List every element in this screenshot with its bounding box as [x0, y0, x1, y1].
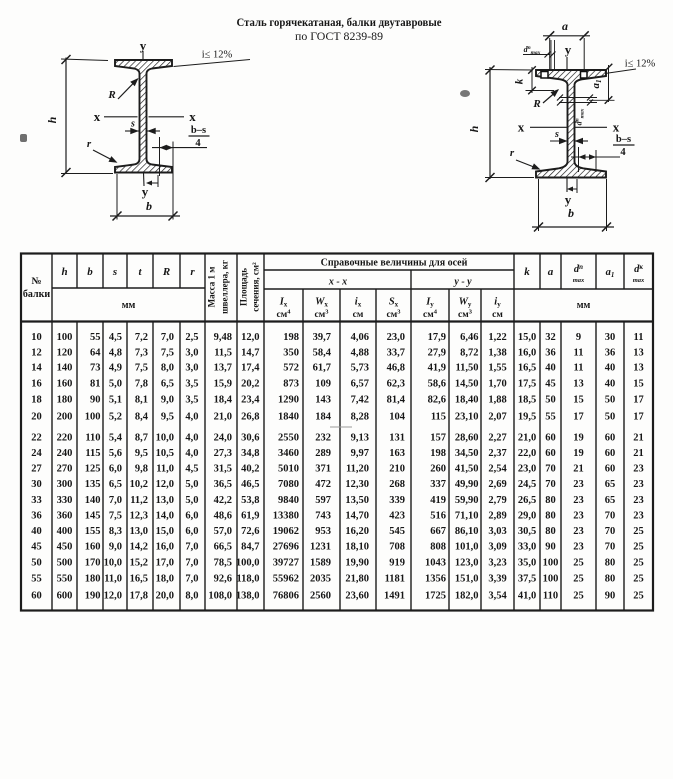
svg-text:13: 13	[573, 379, 584, 390]
svg-text:50: 50	[31, 557, 42, 568]
svg-text:3,0: 3,0	[185, 347, 198, 358]
svg-text:x: x	[613, 120, 620, 135]
svg-text:80: 80	[605, 573, 616, 584]
svg-text:30,5: 30,5	[518, 526, 536, 537]
svg-text:160: 160	[85, 542, 101, 553]
svg-text:260: 260	[430, 464, 446, 475]
svg-text:сечения, см²: сечения, см²	[251, 262, 261, 312]
svg-text:6,0: 6,0	[185, 526, 198, 537]
svg-text:19,90: 19,90	[345, 557, 369, 568]
svg-text:18: 18	[31, 395, 42, 406]
svg-text:39727: 39727	[273, 557, 299, 568]
svg-text:268: 268	[389, 479, 405, 490]
svg-text:80: 80	[545, 526, 556, 537]
svg-text:1,38: 1,38	[488, 347, 506, 358]
svg-text:49,90: 49,90	[455, 479, 479, 490]
svg-text:26,8: 26,8	[241, 411, 259, 422]
svg-text:108,0: 108,0	[208, 590, 232, 601]
svg-text:80: 80	[545, 510, 556, 521]
svg-text:25: 25	[573, 557, 584, 568]
left diagram axis y bottom	[143, 173, 146, 187]
svg-text:339: 339	[389, 495, 405, 506]
svg-text:36: 36	[31, 510, 42, 521]
svg-text:12,0: 12,0	[156, 479, 174, 490]
left (b-s)/4 dimension	[159, 137, 161, 176]
svg-text:919: 919	[389, 557, 405, 568]
svg-text:26,5: 26,5	[518, 495, 536, 506]
right (b-s)/4 dimension	[578, 147, 580, 172]
svg-text:b–s: b–s	[616, 134, 631, 145]
svg-text:50: 50	[545, 395, 556, 406]
svg-text:2560: 2560	[310, 590, 331, 601]
svg-text:h: h	[45, 116, 59, 123]
left bottom small dimension	[157, 175, 159, 187]
svg-text:50: 50	[605, 395, 616, 406]
svg-text:18,40: 18,40	[455, 395, 479, 406]
svg-text:2,89: 2,89	[488, 510, 506, 521]
svg-text:5,6: 5,6	[109, 448, 122, 459]
svg-text:27: 27	[31, 464, 42, 475]
svg-text:23: 23	[573, 495, 584, 506]
svg-text:25: 25	[633, 542, 644, 553]
svg-text:21: 21	[633, 433, 644, 444]
svg-text:36: 36	[605, 347, 616, 358]
svg-text:118,0: 118,0	[236, 573, 259, 584]
svg-text:40,2: 40,2	[241, 464, 259, 475]
svg-text:55962: 55962	[273, 573, 299, 584]
svg-text:21: 21	[633, 448, 644, 459]
svg-text:125: 125	[85, 464, 101, 475]
svg-text:y: y	[142, 184, 149, 199]
svg-text:55: 55	[31, 573, 42, 584]
svg-text:5,1: 5,1	[109, 395, 122, 406]
svg-text:x: x	[189, 109, 196, 124]
svg-text:1,22: 1,22	[488, 332, 506, 343]
svg-text:330: 330	[57, 495, 73, 506]
svg-text:7,0: 7,0	[185, 557, 198, 568]
svg-text:Площадь: Площадь	[239, 268, 249, 306]
svg-text:3,5: 3,5	[185, 379, 198, 390]
svg-text:41,0: 41,0	[518, 590, 536, 601]
svg-text:7,42: 7,42	[351, 395, 369, 406]
svg-text:2,69: 2,69	[488, 479, 506, 490]
header line under h..r	[52, 287, 205, 289]
svg-text:200: 200	[57, 411, 73, 422]
svg-text:22,0: 22,0	[518, 448, 536, 459]
right a1 dimension	[608, 65, 610, 102]
svg-text:11: 11	[634, 332, 644, 343]
svg-text:i≤ 12%: i≤ 12%	[202, 50, 233, 61]
svg-text:82,6: 82,6	[428, 395, 446, 406]
svg-text:953: 953	[315, 526, 331, 537]
vertical lines k..d group	[539, 254, 541, 290]
svg-text:13380: 13380	[273, 510, 299, 521]
svg-text:3460: 3460	[278, 448, 299, 459]
svg-text:8,0: 8,0	[161, 363, 174, 374]
svg-text:17,5: 17,5	[518, 379, 536, 390]
right a dimension	[549, 38, 551, 70]
table vertical lines full height	[51, 254, 53, 611]
svg-text:23,4: 23,4	[241, 395, 260, 406]
svg-text:708: 708	[389, 542, 405, 553]
svg-text:2,27: 2,27	[488, 433, 506, 444]
svg-text:k: k	[514, 78, 526, 84]
svg-text:143: 143	[315, 395, 331, 406]
left slope label i<=12%	[174, 60, 251, 67]
svg-text:a: a	[548, 266, 554, 278]
svg-text:60: 60	[605, 433, 616, 444]
svg-text:170: 170	[85, 557, 101, 568]
svg-text:81: 81	[90, 379, 101, 390]
svg-text:115: 115	[85, 448, 100, 459]
svg-text:545: 545	[389, 526, 405, 537]
svg-text:3,5: 3,5	[185, 395, 198, 406]
svg-text:14,2: 14,2	[130, 542, 148, 553]
svg-text:53,8: 53,8	[241, 495, 259, 506]
svg-text:100: 100	[57, 332, 73, 343]
svg-text:34,8: 34,8	[241, 448, 259, 459]
svg-text:16,5: 16,5	[518, 363, 536, 374]
svg-text:17: 17	[633, 411, 644, 422]
svg-text:27696: 27696	[273, 542, 299, 553]
svg-text:27,3: 27,3	[214, 448, 232, 459]
svg-text:13: 13	[633, 363, 644, 374]
svg-text:84,7: 84,7	[241, 542, 259, 553]
svg-text:25: 25	[633, 526, 644, 537]
svg-text:55: 55	[90, 332, 101, 343]
svg-text:100: 100	[543, 557, 559, 568]
left b dimension	[116, 174, 118, 220]
svg-text:швеллера, кг: швеллера, кг	[220, 260, 230, 314]
svg-text:7,0: 7,0	[185, 542, 198, 553]
svg-text:86,10: 86,10	[455, 526, 479, 537]
svg-text:21,80: 21,80	[345, 573, 369, 584]
svg-text:9,0: 9,0	[109, 542, 122, 553]
svg-text:6,0: 6,0	[185, 510, 198, 521]
svg-text:1725: 1725	[425, 590, 446, 601]
svg-text:45: 45	[31, 542, 42, 553]
svg-text:46,8: 46,8	[387, 363, 405, 374]
svg-text:37,5: 37,5	[518, 573, 536, 584]
svg-text:29,0: 29,0	[518, 510, 536, 521]
svg-text:21,0: 21,0	[214, 411, 232, 422]
right slope label i<=12%	[605, 69, 636, 74]
svg-text:9840: 9840	[278, 495, 299, 506]
svg-text:155: 155	[85, 526, 101, 537]
svg-text:6,57: 6,57	[351, 379, 369, 390]
svg-text:13: 13	[633, 347, 644, 358]
svg-text:18,10: 18,10	[345, 542, 369, 553]
svg-text:4,0: 4,0	[185, 448, 198, 459]
svg-text:7,5: 7,5	[161, 347, 174, 358]
svg-text:7,2: 7,2	[135, 332, 148, 343]
svg-text:220: 220	[57, 433, 73, 444]
svg-text:1,55: 1,55	[488, 363, 506, 374]
svg-text:135: 135	[85, 479, 101, 490]
svg-text:2035: 2035	[310, 573, 331, 584]
svg-text:13,0: 13,0	[130, 526, 148, 537]
svg-text:9,5: 9,5	[161, 411, 174, 422]
svg-text:60: 60	[545, 433, 556, 444]
svg-text:61,7: 61,7	[313, 363, 331, 374]
svg-text:24,5: 24,5	[518, 479, 536, 490]
svg-text:s: s	[112, 266, 117, 278]
svg-text:60: 60	[31, 590, 42, 601]
svg-text:4,0: 4,0	[185, 411, 198, 422]
scan smudge left margin	[20, 134, 27, 142]
svg-text:1589: 1589	[310, 557, 331, 568]
svg-text:16: 16	[31, 379, 42, 390]
svg-text:r: r	[190, 266, 195, 278]
svg-text:360: 360	[57, 510, 73, 521]
header line under x-x / y-y band and k..d cells	[264, 288, 653, 290]
svg-text:10,2: 10,2	[130, 479, 148, 490]
svg-text:600: 600	[57, 590, 73, 601]
svg-text:110: 110	[85, 433, 100, 444]
svg-text:23: 23	[573, 510, 584, 521]
svg-text:12,0: 12,0	[104, 590, 122, 601]
svg-text:808: 808	[430, 542, 446, 553]
svg-text:r: r	[87, 138, 92, 150]
svg-text:Справочные величины для осей: Справочные величины для осей	[321, 258, 468, 269]
svg-text:667: 667	[430, 526, 446, 537]
svg-text:23,0: 23,0	[518, 464, 536, 475]
svg-text:60: 60	[605, 464, 616, 475]
svg-text:7080: 7080	[278, 479, 299, 490]
svg-text:198: 198	[283, 332, 299, 343]
svg-text:8,0: 8,0	[185, 590, 198, 601]
svg-text:17,9: 17,9	[428, 332, 446, 343]
svg-text:25: 25	[633, 573, 644, 584]
svg-text:4: 4	[620, 147, 626, 158]
svg-text:17: 17	[573, 411, 584, 422]
svg-text:109: 109	[315, 379, 331, 390]
svg-text:y: y	[140, 38, 147, 53]
svg-text:55: 55	[545, 411, 556, 422]
svg-text:16,5: 16,5	[130, 573, 148, 584]
svg-text:210: 210	[389, 464, 405, 475]
svg-text:72,6: 72,6	[241, 526, 259, 537]
svg-text:3,09: 3,09	[488, 542, 506, 553]
svg-text:61,9: 61,9	[241, 510, 259, 521]
svg-text:23: 23	[633, 464, 644, 475]
svg-text:110: 110	[543, 590, 558, 601]
svg-text:10,5: 10,5	[156, 448, 174, 459]
svg-text:57,0: 57,0	[214, 526, 232, 537]
header line under reference-values band	[264, 269, 514, 271]
svg-text:см: см	[353, 310, 364, 320]
svg-text:R: R	[532, 98, 540, 110]
svg-text:31,5: 31,5	[214, 464, 232, 475]
right x-x axis	[530, 126, 567, 128]
svg-text:20,2: 20,2	[241, 379, 259, 390]
svg-text:k: k	[524, 266, 530, 278]
svg-text:b: b	[568, 206, 574, 220]
svg-text:36: 36	[545, 347, 556, 358]
table header separator (thick)	[21, 320, 653, 322]
svg-text:2,07: 2,07	[488, 411, 506, 422]
svg-text:9,48: 9,48	[214, 332, 232, 343]
svg-text:70: 70	[545, 464, 556, 475]
svg-text:3,0: 3,0	[185, 363, 198, 374]
svg-text:40: 40	[605, 379, 616, 390]
svg-text:35,0: 35,0	[518, 557, 536, 568]
svg-text:17,0: 17,0	[156, 557, 174, 568]
svg-text:23: 23	[573, 526, 584, 537]
svg-text:66,5: 66,5	[214, 542, 232, 553]
svg-text:270: 270	[57, 464, 73, 475]
svg-text:45: 45	[545, 379, 556, 390]
svg-text:7,0: 7,0	[161, 332, 174, 343]
svg-text:30: 30	[605, 332, 616, 343]
svg-text:190: 190	[85, 590, 101, 601]
svg-text:33,7: 33,7	[387, 347, 405, 358]
left I-beam hatched cross-section	[115, 60, 172, 173]
svg-text:7,3: 7,3	[135, 347, 148, 358]
right I-beam hatched cross-section	[536, 70, 606, 178]
svg-text:s: s	[554, 129, 559, 140]
svg-text:743: 743	[315, 510, 331, 521]
svg-text:16,0: 16,0	[156, 542, 174, 553]
svg-text:18,0: 18,0	[156, 573, 174, 584]
svg-text:14,70: 14,70	[345, 510, 369, 521]
svg-text:572: 572	[283, 363, 299, 374]
svg-text:i≤ 12%: i≤ 12%	[625, 59, 656, 70]
svg-text:9,13: 9,13	[351, 433, 369, 444]
right k dimension	[531, 67, 533, 93]
svg-text:15,2: 15,2	[130, 557, 148, 568]
svg-text:y - y: y - y	[453, 277, 472, 288]
svg-text:337: 337	[430, 479, 446, 490]
right axis y bottom	[566, 178, 568, 193]
svg-text:597: 597	[315, 495, 331, 506]
svg-text:10,0: 10,0	[104, 557, 122, 568]
svg-text:23: 23	[573, 542, 584, 553]
svg-text:25: 25	[573, 590, 584, 601]
svg-text:81,4: 81,4	[387, 395, 406, 406]
svg-text:58,4: 58,4	[313, 347, 332, 358]
svg-text:16,20: 16,20	[345, 526, 369, 537]
svg-text:20: 20	[31, 411, 42, 422]
svg-text:11: 11	[574, 363, 584, 374]
svg-text:b: b	[146, 199, 152, 213]
svg-text:71,10: 71,10	[455, 510, 479, 521]
svg-text:23: 23	[633, 510, 644, 521]
svg-text:8,72: 8,72	[460, 347, 478, 358]
svg-text:30: 30	[31, 479, 42, 490]
svg-text:32: 32	[545, 332, 556, 343]
svg-text:145: 145	[85, 510, 101, 521]
svg-text:4,0: 4,0	[185, 433, 198, 444]
svg-text:182,0: 182,0	[455, 590, 479, 601]
svg-text:15: 15	[573, 395, 584, 406]
faint scan artifact in section gap	[330, 426, 352, 428]
svg-text:23: 23	[573, 479, 584, 490]
svg-text:5,2: 5,2	[109, 411, 122, 422]
svg-text:70: 70	[605, 526, 616, 537]
svg-text:s: s	[130, 119, 135, 130]
svg-text:23,60: 23,60	[345, 590, 369, 601]
svg-text:27,9: 27,9	[428, 347, 446, 358]
svg-text:b: b	[87, 266, 93, 278]
svg-text:11,20: 11,20	[346, 464, 369, 475]
svg-text:42,2: 42,2	[214, 495, 232, 506]
svg-text:21,0: 21,0	[518, 433, 536, 444]
vertical line x-x / y-y divider	[410, 270, 412, 611]
svg-text:14,50: 14,50	[455, 379, 479, 390]
svg-text:8,3: 8,3	[109, 526, 122, 537]
svg-text:№: №	[31, 276, 41, 287]
svg-text:15,0: 15,0	[518, 332, 536, 343]
svg-text:25: 25	[573, 573, 584, 584]
svg-text:max: max	[633, 277, 645, 284]
svg-text:180: 180	[57, 395, 73, 406]
svg-text:500: 500	[57, 557, 73, 568]
svg-text:19,5: 19,5	[518, 411, 536, 422]
svg-text:мм: мм	[577, 300, 591, 311]
svg-text:92,6: 92,6	[214, 573, 232, 584]
right flange rivet hole left	[541, 72, 548, 79]
right axis y top	[566, 57, 568, 70]
svg-text:1290: 1290	[278, 395, 299, 406]
vertical lines unit cells x-x group	[302, 289, 304, 611]
svg-text:100: 100	[543, 573, 559, 584]
svg-text:138,0: 138,0	[236, 590, 260, 601]
svg-text:11,0: 11,0	[104, 573, 122, 584]
svg-text:13,0: 13,0	[156, 495, 174, 506]
svg-text:19062: 19062	[273, 526, 299, 537]
svg-text:12,3: 12,3	[130, 510, 148, 521]
svg-text:5010: 5010	[278, 464, 299, 475]
svg-text:22: 22	[31, 433, 42, 444]
svg-text:101,0: 101,0	[455, 542, 479, 553]
svg-text:873: 873	[283, 379, 299, 390]
svg-text:450: 450	[57, 542, 73, 553]
svg-text:7,0: 7,0	[185, 573, 198, 584]
right b dimension	[538, 179, 540, 231]
svg-text:r: r	[510, 147, 515, 159]
svg-text:40: 40	[545, 363, 556, 374]
svg-text:x - x: x - x	[328, 277, 347, 288]
svg-text:140: 140	[85, 495, 101, 506]
svg-text:12,30: 12,30	[345, 479, 369, 490]
svg-text:4,8: 4,8	[109, 347, 122, 358]
svg-text:1181: 1181	[385, 573, 405, 584]
svg-text:70: 70	[605, 542, 616, 553]
svg-text:160: 160	[57, 379, 73, 390]
svg-text:65: 65	[605, 495, 616, 506]
svg-text:104: 104	[389, 411, 406, 422]
svg-text:58,6: 58,6	[428, 379, 446, 390]
svg-text:18,5: 18,5	[518, 395, 536, 406]
svg-text:2,54: 2,54	[488, 464, 507, 475]
svg-text:28,60: 28,60	[455, 433, 479, 444]
left x-x axis	[104, 116, 138, 118]
svg-text:76806: 76806	[273, 590, 299, 601]
svg-text:240: 240	[57, 448, 73, 459]
svg-text:1,88: 1,88	[488, 395, 506, 406]
svg-text:6,5: 6,5	[109, 479, 122, 490]
svg-text:7,0: 7,0	[109, 495, 122, 506]
svg-text:18,4: 18,4	[214, 395, 233, 406]
svg-text:90: 90	[90, 395, 101, 406]
svg-text:y: y	[565, 42, 572, 57]
svg-text:60: 60	[545, 448, 556, 459]
svg-text:см: см	[492, 310, 503, 320]
svg-text:151,0: 151,0	[455, 573, 479, 584]
svg-text:232: 232	[315, 433, 331, 444]
svg-text:16,0: 16,0	[518, 347, 536, 358]
